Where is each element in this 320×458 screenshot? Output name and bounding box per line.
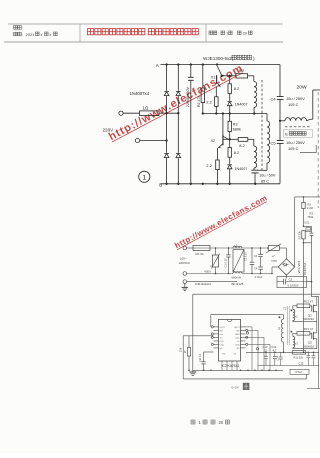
resistor R1 2.2M xyxy=(303,197,305,202)
diode 1N4007 (lower stage) xyxy=(227,165,232,169)
wire fuse to NTC rail xyxy=(210,247,268,249)
transformer T1 primary xyxy=(283,315,285,319)
IC right pin wires xyxy=(246,326,253,328)
svg-text:1N4007: 1N4007 xyxy=(234,167,247,171)
MOSFET Q2 xyxy=(311,306,313,312)
capacitor 10u/50V xyxy=(251,169,258,171)
resistor 1 ohm xyxy=(140,111,160,116)
wire to output edge xyxy=(312,296,319,298)
svg-text:R7x2: R7x2 xyxy=(296,370,303,374)
fuse RF 3A xyxy=(193,246,210,251)
svg-text:R12 47: R12 47 xyxy=(304,300,314,304)
wire X2 base up to mid rail 1 xyxy=(222,114,224,135)
winding lower-left xyxy=(254,146,257,168)
svg-text:680mH: 680mH xyxy=(232,275,241,279)
wire bridge bottom to C5 box xyxy=(286,275,288,278)
transformer secondary n3 xyxy=(291,331,293,333)
svg-text:0.1/630V: 0.1/630V xyxy=(288,284,299,288)
svg-text:C14: C14 xyxy=(276,355,279,360)
svg-text:1N4007: 1N4007 xyxy=(235,102,248,106)
transformer core dashed xyxy=(261,80,263,170)
svg-text:T2: T2 xyxy=(283,307,287,311)
DC bus vertical A xyxy=(303,243,305,352)
svg-text:10u / 50V: 10u / 50V xyxy=(259,173,276,177)
wire snubber to DC bus xyxy=(307,281,312,283)
signal ground rail xyxy=(193,369,283,371)
shield wire down to ground xyxy=(192,294,194,370)
capacitor 220uF/450V xyxy=(190,65,192,78)
load stub wires xyxy=(315,145,317,153)
diode 1N4007 (upper stage) xyxy=(227,102,232,106)
transformer T1 core xyxy=(287,306,289,345)
svg-text:B: B xyxy=(159,182,162,187)
svg-text:4.7: 4.7 xyxy=(273,349,277,353)
svg-text:105 C: 105 C xyxy=(288,146,299,151)
junction dots on top rail xyxy=(165,63,167,65)
IC drive wire over xyxy=(211,314,284,316)
svg-text:8.2: 8.2 xyxy=(234,150,240,155)
svg-text:R2 47k: R2 47k xyxy=(197,96,201,107)
R7x2 box xyxy=(290,369,309,374)
E-core inductor (E型磁芯) xyxy=(280,120,285,122)
NTC input node xyxy=(267,247,269,249)
IC right pins xyxy=(241,326,246,328)
svg-text:GND: GND xyxy=(235,334,240,336)
resistor 8.2 horizontal (lower) xyxy=(238,138,248,142)
svg-text:1NR140JA21: 1NR140JA21 xyxy=(195,282,211,286)
svg-text:C11 0.1: C11 0.1 xyxy=(199,353,202,362)
svg-text:NTC: NTC xyxy=(272,259,278,263)
header divider 2 xyxy=(205,24,207,42)
svg-text:E: E xyxy=(285,131,288,136)
wire: top rail drop to C4 xyxy=(279,65,281,97)
svg-text:X1: X1 xyxy=(211,75,216,79)
NTC thermistor xyxy=(268,246,279,251)
svg-text:20: 20 xyxy=(243,32,247,36)
svg-text:R3: R3 xyxy=(310,211,314,215)
header table bottom border xyxy=(4,41,283,43)
winding right xyxy=(266,120,268,122)
wire X1 emitter node xyxy=(222,75,236,77)
ground symbol (mains earth) xyxy=(184,283,186,287)
header motto red text 书山有路勤为径，学海无涯苦作舟 xyxy=(88,29,94,35)
common-mode choke L1 (core box with diagonal) xyxy=(233,246,242,248)
svg-text:20W: 20W xyxy=(297,85,307,91)
resistor 8.2 vertical (upper) xyxy=(229,76,231,84)
interface dark box xyxy=(243,383,250,390)
junction dots on bottom rail xyxy=(165,183,167,185)
input terminal 2 xyxy=(135,138,139,142)
svg-text:1Ω: 1Ω xyxy=(143,105,150,110)
svg-text:R3: R3 xyxy=(233,122,238,126)
svg-text:VD1~VD4: VD1~VD4 xyxy=(297,261,301,274)
svg-text:C12: C12 xyxy=(263,345,268,349)
header cell: 编号: xyxy=(14,26,18,30)
svg-text:20: 20 xyxy=(219,420,224,425)
red watermark 2 http://www.elecfans.com xyxy=(173,193,269,250)
svg-text:500N/9A: 500N/9A xyxy=(303,317,314,321)
svg-text:SC: SC xyxy=(220,337,223,339)
svg-text:0.01: 0.01 xyxy=(304,220,310,224)
top rail wire xyxy=(161,64,281,66)
diode D1 (1N4007) xyxy=(164,92,169,96)
svg-text::: : xyxy=(22,26,23,30)
test point circles xyxy=(246,332,248,334)
svg-text:C13: C13 xyxy=(271,345,276,349)
svg-text:8.2: 8.2 xyxy=(234,86,240,91)
shield wire across xyxy=(193,293,320,295)
svg-text::: : xyxy=(22,33,23,37)
svg-text:220uF/450V: 220uF/450V xyxy=(186,86,190,107)
svg-text:R11 22k: R11 22k xyxy=(294,355,304,359)
X-capacitor C2 0.15 xyxy=(251,248,253,262)
svg-text:1: 1 xyxy=(142,174,146,181)
svg-text:430V: 430V xyxy=(204,269,211,273)
svg-text:C6: C6 xyxy=(307,228,311,232)
svg-text:2.2: 2.2 xyxy=(206,99,212,104)
svg-text:+t°: +t° xyxy=(272,254,275,258)
capacitor C4 xyxy=(277,96,284,98)
svg-text:L1: L1 xyxy=(235,243,239,247)
svg-text:R2 33k: R2 33k xyxy=(298,230,302,239)
circled number 1 xyxy=(139,171,150,182)
module bottom border xyxy=(183,378,306,380)
transformer secondary n2 xyxy=(291,310,293,312)
svg-text:750k: 750k xyxy=(307,215,313,219)
wire terminal2 to bridge xyxy=(140,140,167,142)
svg-text:BF12125: BF12125 xyxy=(232,282,244,286)
IC U1 box xyxy=(219,320,241,362)
bridge + vertical to top wire xyxy=(294,197,296,267)
svg-text:MC: MC xyxy=(220,330,224,332)
svg-text:ND: ND xyxy=(237,330,241,332)
Y-capacitors C3/C4 2.3m2 xyxy=(260,248,262,254)
diode D2 (1N4007) xyxy=(176,92,181,96)
header divider 1 xyxy=(79,24,81,42)
ground symbol 2 xyxy=(192,370,194,372)
DC bus vertical B xyxy=(311,243,313,297)
svg-text:2.3m2: 2.3m2 xyxy=(255,275,263,279)
wire L to fuse xyxy=(187,247,193,249)
svg-text:2.2: 2.2 xyxy=(206,163,212,168)
svg-text:2.2M: 2.2M xyxy=(307,206,314,210)
left lowpass box xyxy=(183,335,213,337)
resistor R2 47k xyxy=(202,65,204,89)
top-right feed wire xyxy=(295,196,320,198)
svg-text:C5: C5 xyxy=(289,278,293,282)
svg-text:15k: 15k xyxy=(179,347,183,352)
svg-text:C2 0.15: C2 0.15 xyxy=(244,252,247,261)
wire X1 base to resistor 2.2 xyxy=(215,87,217,97)
svg-text:22: 22 xyxy=(264,349,267,353)
header table top border xyxy=(8,23,283,25)
svg-text:Cdm: Cdm xyxy=(235,337,240,339)
capacitor C1 0.15 xyxy=(228,248,230,255)
IC left pins xyxy=(214,326,219,328)
capacitor C6 xyxy=(311,226,313,233)
footer page number 第 1 页 共 20 页 xyxy=(191,420,195,424)
resistor R3 680k xyxy=(229,114,231,122)
bridge rectifier VD1~VD4 1N4007x4 xyxy=(286,248,288,259)
bridge arm 1 wire xyxy=(166,65,168,91)
snubber box C5 0.1/630V xyxy=(277,277,307,288)
MOSFET Q3 xyxy=(311,333,313,339)
output rail 2 xyxy=(258,365,319,367)
svg-text:220V: 220V xyxy=(103,128,115,133)
winding upper-left xyxy=(253,76,255,82)
wire R2-C6 bottom xyxy=(304,242,312,244)
right edge bus xyxy=(318,297,320,376)
wire R1 to C6 xyxy=(304,225,312,227)
svg-text:500N/9A: 500N/9A xyxy=(303,344,314,348)
svg-text:RF 3A: RF 3A xyxy=(196,252,204,256)
red watermark 1 http://www.elecfans.com xyxy=(107,62,246,143)
svg-text:Vdm: Vdm xyxy=(235,344,240,346)
output rail 1 xyxy=(246,351,319,353)
svg-text:10u / 250V: 10u / 250V xyxy=(286,96,305,101)
wire neutral to L1 xyxy=(183,272,187,276)
header cell: 页码: 第1页 共20页 xyxy=(209,31,213,35)
earth terminal + ground xyxy=(183,280,187,284)
wire L1 bottom to bridge xyxy=(271,273,273,275)
svg-text:680k: 680k xyxy=(233,128,241,132)
svg-text:105 C: 105 C xyxy=(288,102,299,107)
varistor 430V xyxy=(215,248,217,255)
svg-text:240VAC: 240VAC xyxy=(179,261,191,265)
svg-text:10u / 250V: 10u / 250V xyxy=(286,140,305,145)
svg-text:SD: SD xyxy=(237,348,240,350)
wire terminal1 to R 1ohm xyxy=(123,112,139,114)
svg-text:x: x xyxy=(50,33,52,37)
input terminal L xyxy=(183,246,187,250)
diode D3 (1N4007) xyxy=(164,154,169,158)
svg-text:OUT2: OUT2 xyxy=(234,327,241,329)
svg-text:8.2: 8.2 xyxy=(239,68,245,73)
svg-text:0~2V: 0~2V xyxy=(232,386,240,390)
resistor 8.2 horizontal (upper) xyxy=(236,74,248,78)
wire X2 emitter to resistor 2.2 xyxy=(216,148,218,160)
svg-text::: : xyxy=(218,32,219,36)
resistor 2.2 (X1) xyxy=(215,97,219,107)
input terminal 1 xyxy=(119,111,123,115)
transistor X1 xyxy=(217,66,221,75)
IC bottom pin drops xyxy=(221,361,223,370)
svg-text:C4: C4 xyxy=(271,96,277,101)
svg-text:R13 47: R13 47 xyxy=(304,327,314,331)
svg-text:1N4007x4: 1N4007x4 xyxy=(130,91,150,96)
bridge arm 2 wire xyxy=(177,65,179,91)
capacitor C5 xyxy=(279,121,281,141)
dashed page divider xyxy=(317,92,319,208)
mid rail 2 wire xyxy=(223,138,238,140)
wire R 1ohm to bridge xyxy=(159,112,178,114)
caps on rail right xyxy=(307,352,309,355)
diode D4 (1N4007) xyxy=(176,154,181,158)
header cell: 时间: 2021年x月x日 xyxy=(14,32,18,36)
svg-text:C15: C15 xyxy=(299,361,304,365)
svg-text:OUT1: OUT1 xyxy=(220,327,227,329)
resistor R11 22k xyxy=(293,351,306,355)
mid rail 1 wire xyxy=(203,113,267,115)
svg-text:C5: C5 xyxy=(271,140,277,145)
svg-text:85 C: 85 C xyxy=(261,180,269,184)
resistor 8.2 vertical (lower) xyxy=(229,139,231,147)
svg-text:1: 1 xyxy=(226,32,228,36)
svg-text:x: x xyxy=(41,33,43,37)
svg-text:2021: 2021 xyxy=(26,32,36,37)
resistor 2.2 (X2) xyxy=(216,160,220,170)
bottom-right stub xyxy=(307,388,320,390)
wire to 20W load xyxy=(312,90,314,119)
svg-text:WJE1300-5x2(: WJE1300-5x2( xyxy=(203,56,234,61)
bottom rail wire xyxy=(161,183,281,185)
svg-text:X2: X2 xyxy=(211,139,216,143)
svg-text:C1 0.15: C1 0.15 xyxy=(224,258,228,268)
svg-text:8.2: 8.2 xyxy=(239,143,245,148)
